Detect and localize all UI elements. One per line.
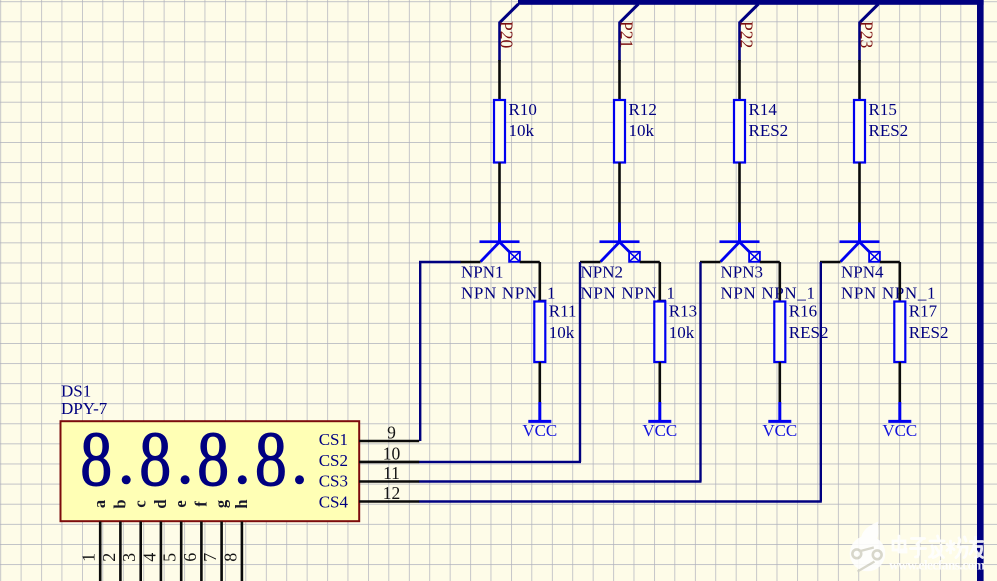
svg-text:4: 4 bbox=[139, 553, 159, 562]
svg-text:NPN NPN_1: NPN NPN_1 bbox=[841, 284, 936, 303]
transistor NPN1 emitter arrow box bbox=[509, 252, 520, 262]
watermark elecfans logo bbox=[850, 522, 886, 572]
transistor NPN2 emitter arrow box bbox=[629, 252, 640, 262]
bus entry for P23 bbox=[860, 4, 878, 22]
wire from NPN1 base to CS row bbox=[420, 262, 460, 441]
transistor NPN3 base pin bbox=[700, 261, 721, 264]
transistor NPN1 collector diagonal bbox=[481, 243, 499, 262]
resistor R12 body bbox=[614, 100, 625, 163]
transistor NPN4 base pin bbox=[820, 261, 841, 264]
svg-text:VCC: VCC bbox=[762, 421, 797, 440]
svg-text:P21: P21 bbox=[617, 21, 637, 48]
display DS1 pin 6 wire bbox=[200, 522, 203, 581]
transistor NPN1 emitter diagonal bbox=[500, 243, 510, 253]
resistor R16 body bbox=[774, 302, 785, 363]
svg-text:R17: R17 bbox=[909, 301, 938, 320]
svg-text:R14: R14 bbox=[749, 100, 778, 119]
bus entry for P22 bbox=[740, 4, 758, 22]
wire from NPN4 base to CS row bbox=[820, 262, 822, 502]
svg-text:9: 9 bbox=[387, 422, 396, 442]
display DS1 pin 4 wire bbox=[160, 522, 163, 581]
display DS1 pin 9 wire stub bbox=[359, 440, 419, 443]
resistor R11 pin 1 bbox=[538, 262, 541, 302]
svg-text:8: 8 bbox=[139, 416, 171, 502]
svg-text:VCC: VCC bbox=[642, 421, 677, 440]
svg-text:www.elecfans.com: www.elecfans.com bbox=[889, 558, 986, 573]
svg-text:c: c bbox=[131, 500, 150, 507]
svg-text:VCC: VCC bbox=[522, 421, 557, 440]
resistor R16 pin 2 bbox=[778, 362, 781, 403]
transistor NPN2 collector diagonal bbox=[601, 243, 619, 262]
resistor R17 pin 1 bbox=[898, 262, 901, 302]
transistor NPN2 emitter diagonal bbox=[620, 243, 630, 253]
svg-text:RES2: RES2 bbox=[869, 121, 909, 140]
power port VCC (column 2) lead bbox=[658, 402, 661, 421]
svg-text:RES2: RES2 bbox=[749, 121, 789, 140]
resistor R13 pin 1 bbox=[658, 262, 661, 302]
svg-text:8: 8 bbox=[80, 416, 112, 502]
svg-text:VCC: VCC bbox=[882, 421, 917, 440]
resistor R12 pin 2 bbox=[618, 163, 621, 224]
watermark text zi bbox=[911, 539, 926, 558]
watermark text dian (electron) bbox=[893, 536, 983, 558]
svg-text:NPN3: NPN3 bbox=[721, 263, 764, 282]
svg-text:8: 8 bbox=[197, 416, 229, 502]
svg-text:R10: R10 bbox=[509, 100, 537, 119]
svg-text:NPN NPN_1: NPN NPN_1 bbox=[461, 284, 556, 303]
resistor R12 pin 1 bbox=[618, 60, 621, 100]
watermark text shao bbox=[947, 537, 967, 558]
svg-text:1: 1 bbox=[79, 553, 99, 562]
svg-text:8: 8 bbox=[255, 416, 287, 502]
transistor NPN3 emitter arrow box bbox=[749, 252, 760, 262]
svg-text:RES2: RES2 bbox=[789, 323, 829, 342]
svg-text:10: 10 bbox=[383, 443, 401, 463]
resistor R14 body bbox=[734, 100, 745, 163]
svg-text:3: 3 bbox=[119, 553, 139, 562]
transistor NPN3 collector lead bbox=[738, 223, 741, 242]
svg-text:RES2: RES2 bbox=[909, 323, 949, 342]
svg-text:DS1: DS1 bbox=[61, 382, 91, 401]
svg-text:CS2: CS2 bbox=[319, 451, 348, 470]
resistor R10 pin 1 bbox=[498, 60, 501, 100]
transistor NPN3 collector diagonal bbox=[721, 243, 739, 262]
transistor NPN2 emitter pin bbox=[640, 261, 660, 264]
svg-text:2: 2 bbox=[99, 553, 119, 562]
watermark text you (friend) bbox=[970, 537, 983, 558]
resistor R10 pin 2 bbox=[498, 163, 501, 224]
transistor NPN1 emitter pin bbox=[520, 261, 540, 264]
svg-text:R11: R11 bbox=[549, 301, 577, 320]
resistor R15 body bbox=[854, 100, 865, 163]
display DS1 pin 3 wire bbox=[139, 522, 142, 581]
svg-text:NPN NPN_1: NPN NPN_1 bbox=[581, 284, 676, 303]
power port VCC (column 2) bar bbox=[648, 420, 671, 423]
wire CS row 3 horizontal bbox=[419, 480, 702, 482]
svg-text:10k: 10k bbox=[669, 323, 695, 342]
power port VCC (column 1) lead bbox=[538, 402, 541, 421]
resistor R13 pin 2 bbox=[658, 362, 661, 403]
power port VCC (column 4) lead bbox=[898, 402, 901, 421]
svg-text:R15: R15 bbox=[869, 100, 897, 119]
svg-text:a: a bbox=[90, 500, 109, 508]
watermark text fa bbox=[930, 536, 945, 558]
svg-text:R12: R12 bbox=[629, 100, 657, 119]
display DS1 pin 10 wire stub bbox=[359, 461, 419, 464]
svg-text:R13: R13 bbox=[669, 301, 697, 320]
transistor NPN3 emitter diagonal bbox=[740, 243, 750, 253]
transistor NPN4 emitter diagonal bbox=[860, 243, 870, 253]
svg-text:8: 8 bbox=[220, 553, 240, 562]
transistor NPN2 base bar bbox=[600, 240, 640, 243]
svg-text:CS4: CS4 bbox=[319, 492, 349, 511]
svg-text:NPN1: NPN1 bbox=[461, 263, 504, 282]
wire CS row 2 horizontal bbox=[419, 461, 581, 463]
svg-text:NPN4: NPN4 bbox=[841, 263, 884, 282]
transistor NPN2 collector lead bbox=[618, 223, 621, 242]
wire CS row 4 horizontal bbox=[419, 500, 822, 502]
power port VCC (column 1) bar bbox=[528, 420, 551, 423]
svg-text:NPN NPN_1: NPN NPN_1 bbox=[721, 284, 816, 303]
svg-text:P22: P22 bbox=[737, 21, 757, 48]
bus (top horizontal power bus) bbox=[518, 0, 984, 5]
display DS1 pin 1 wire bbox=[99, 522, 102, 581]
display DS1 pin 8 wire bbox=[241, 522, 244, 581]
transistor NPN1 base bar bbox=[480, 240, 520, 243]
wire from NPN2 base to CS row bbox=[579, 262, 581, 462]
svg-text:CS3: CS3 bbox=[319, 472, 348, 491]
wire from NPN3 base to CS row bbox=[699, 262, 701, 482]
resistor R11 pin 2 bbox=[538, 362, 541, 403]
resistor R17 body bbox=[894, 302, 905, 363]
svg-text:10k: 10k bbox=[549, 323, 575, 342]
transistor NPN2 base pin bbox=[580, 261, 601, 264]
svg-text:CS1: CS1 bbox=[319, 430, 348, 449]
power port VCC (column 4) bar bbox=[888, 420, 911, 423]
svg-text:b: b bbox=[110, 499, 129, 508]
resistor R11 body bbox=[534, 302, 545, 363]
svg-text:6: 6 bbox=[180, 553, 200, 562]
transistor NPN3 base bar bbox=[720, 240, 760, 243]
svg-text:d: d bbox=[151, 499, 170, 508]
wire net P20 vertical stub bbox=[498, 22, 501, 62]
transistor NPN4 emitter arrow box bbox=[869, 252, 880, 262]
resistor R10 body bbox=[494, 100, 505, 163]
svg-text:R16: R16 bbox=[789, 301, 817, 320]
resistor R13 body bbox=[654, 302, 665, 363]
svg-text:5: 5 bbox=[160, 553, 180, 562]
svg-text:h: h bbox=[232, 499, 251, 508]
display DS1 pin 7 wire bbox=[220, 522, 223, 581]
transistor NPN1 base pin bbox=[460, 261, 481, 264]
transistor NPN4 collector diagonal bbox=[841, 243, 859, 262]
svg-text:7: 7 bbox=[200, 553, 220, 562]
svg-text:f: f bbox=[191, 501, 210, 507]
resistor R14 pin 2 bbox=[738, 163, 741, 224]
svg-text:P20: P20 bbox=[497, 21, 517, 48]
wire net P22 vertical stub bbox=[738, 22, 741, 62]
svg-text:P23: P23 bbox=[857, 21, 877, 48]
resistor R15 pin 2 bbox=[858, 163, 861, 224]
bus (right vertical bus) bbox=[977, 0, 984, 581]
transistor NPN1 collector lead bbox=[498, 223, 501, 242]
display DS1 pin 5 wire bbox=[180, 522, 183, 581]
display DS1 digits 8.8.8.8. bbox=[80, 416, 304, 502]
display DS1 pin 11 wire stub bbox=[359, 480, 419, 483]
svg-text:g: g bbox=[212, 499, 231, 508]
svg-text:e: e bbox=[171, 500, 190, 507]
resistor R14 pin 1 bbox=[738, 60, 741, 100]
transistor NPN3 emitter pin bbox=[760, 261, 780, 264]
svg-text:11: 11 bbox=[383, 463, 400, 483]
transistor NPN4 base bar bbox=[840, 240, 880, 243]
svg-text:12: 12 bbox=[383, 483, 401, 503]
resistor R17 pin 2 bbox=[898, 362, 901, 403]
transistor NPN4 emitter pin bbox=[880, 261, 900, 264]
display DS1 body bbox=[61, 421, 360, 521]
wire net P21 vertical stub bbox=[618, 22, 621, 62]
power port VCC (column 3) lead bbox=[778, 402, 781, 421]
svg-text:NPN2: NPN2 bbox=[581, 263, 624, 282]
resistor R15 pin 1 bbox=[858, 60, 861, 100]
resistor R16 pin 1 bbox=[778, 262, 781, 302]
wire net P23 vertical stub bbox=[858, 22, 861, 62]
svg-text:10k: 10k bbox=[509, 121, 535, 140]
svg-text:10k: 10k bbox=[629, 121, 655, 140]
bus entry for P21 bbox=[620, 4, 638, 22]
transistor NPN4 collector lead bbox=[858, 223, 861, 242]
power port VCC (column 3) bar bbox=[768, 420, 791, 423]
display DS1 pin 2 wire bbox=[119, 522, 122, 581]
bus entry for P20 bbox=[500, 4, 518, 22]
display DS1 pin 12 wire stub bbox=[359, 500, 419, 503]
